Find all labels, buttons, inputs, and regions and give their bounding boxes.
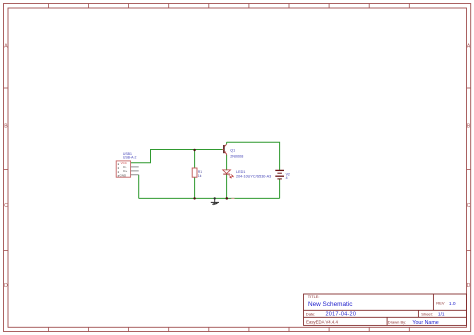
label Drawn By: bbox=[388, 320, 406, 325]
wire resistor bottom bbox=[194, 177, 196, 198]
value 1.0 bbox=[449, 301, 456, 307]
label Date: bbox=[306, 311, 316, 316]
svg-text:2017-04-20: 2017-04-20 bbox=[326, 311, 357, 317]
wire emitter to LED bbox=[226, 155, 228, 170]
svg-text:GND: GND bbox=[120, 173, 128, 177]
LED1 emission arrows bbox=[229, 174, 234, 178]
svg-text:Q1: Q1 bbox=[230, 148, 235, 152]
label REV bbox=[436, 301, 445, 306]
junction node LED bottom bbox=[226, 197, 229, 200]
svg-text:REV: REV bbox=[436, 301, 445, 306]
svg-text:1.0: 1.0 bbox=[449, 301, 456, 307]
pin name D+ bbox=[123, 169, 127, 173]
svg-text:204-10UYC/S530-A3: 204-10UYC/S530-A3 bbox=[236, 175, 271, 179]
wire top rail: collector corner to battery + bbox=[227, 142, 280, 170]
label 204-10UYC/S530-A3 bbox=[236, 175, 271, 179]
connector USB1 body bbox=[116, 161, 130, 177]
transistor Q1 base bar bbox=[223, 145, 225, 153]
svg-text:USB-A-2: USB-A-2 bbox=[123, 156, 137, 160]
LED1 cathode bar bbox=[223, 173, 230, 175]
label 4 bbox=[286, 176, 288, 180]
wire VCC: USB pin1 to bend to resistor/base rail bbox=[131, 150, 222, 163]
transistor Q1 emitter bbox=[224, 151, 226, 155]
svg-text:VCC: VCC bbox=[121, 161, 128, 165]
label USB1 bbox=[123, 152, 132, 156]
svg-text:New Schematic: New Schematic bbox=[308, 301, 353, 308]
svg-text:2N0008: 2N0008 bbox=[230, 154, 243, 158]
svg-text:R1: R1 bbox=[198, 170, 202, 174]
svg-text:EasyEDA V4.4.4: EasyEDA V4.4.4 bbox=[306, 320, 338, 325]
wire collector up bbox=[226, 142, 228, 144]
title block label TITLE: bbox=[308, 294, 320, 299]
ground symbol bbox=[211, 198, 219, 205]
pin name VCC bbox=[121, 161, 128, 165]
wire USB GND down bbox=[138, 175, 140, 199]
wire bottom rail bbox=[139, 197, 280, 199]
svg-text:D: D bbox=[4, 283, 8, 289]
value 2017-04-20 bbox=[326, 311, 357, 317]
svg-text:LED1: LED1 bbox=[236, 170, 245, 174]
label 2N0008 bbox=[230, 154, 243, 158]
svg-text:D+: D+ bbox=[123, 169, 127, 173]
wire resistor top bbox=[194, 150, 196, 169]
junction node resistor top bbox=[193, 149, 195, 151]
pin name GND bbox=[120, 173, 128, 177]
label V2 bbox=[286, 172, 290, 176]
svg-text:4: 4 bbox=[286, 176, 288, 180]
frame zone ticks bottom bbox=[48, 327, 409, 331]
frame row letters left A B C D bbox=[4, 43, 8, 289]
svg-text:Date:: Date: bbox=[306, 311, 316, 316]
junction node ground tap bbox=[214, 197, 216, 199]
pin GND stub bbox=[131, 174, 139, 176]
svg-text:1/1: 1/1 bbox=[438, 312, 445, 318]
value 1/1 bbox=[438, 312, 445, 318]
LED1 triangle bbox=[223, 170, 231, 174]
svg-text:Drawn By:: Drawn By: bbox=[388, 320, 406, 325]
svg-text:C: C bbox=[467, 203, 471, 209]
frame row letters right A B C D bbox=[467, 43, 471, 289]
wire highlight segment bbox=[231, 197, 234, 199]
battery V2 plates bbox=[275, 170, 284, 179]
pin numbers column bbox=[118, 163, 119, 176]
svg-text:Sheet:: Sheet: bbox=[421, 312, 433, 317]
pin name D- bbox=[123, 165, 126, 169]
value Your Name bbox=[412, 320, 438, 326]
svg-text:1k: 1k bbox=[198, 174, 202, 178]
frame zone ticks right bbox=[467, 88, 471, 250]
transistor Q1 emitter arrow bbox=[224, 151, 226, 153]
label LED1 bbox=[236, 170, 245, 174]
label USB-A-2 bbox=[123, 156, 137, 160]
wire battery - down bbox=[279, 179, 281, 199]
resistor R1 body bbox=[192, 168, 197, 177]
pin D+ stub bbox=[131, 170, 139, 172]
svg-text:D-: D- bbox=[123, 165, 126, 169]
pin D- stub bbox=[131, 166, 139, 168]
wire LED cathode down bbox=[226, 174, 228, 198]
frame zone ticks top bbox=[48, 4, 409, 9]
label EasyEDA V4.4.4 bbox=[306, 320, 338, 325]
label Q1 bbox=[230, 148, 235, 152]
svg-text:Your Name: Your Name bbox=[412, 320, 438, 326]
label R1 bbox=[198, 170, 202, 174]
transistor Q1 collector bbox=[224, 144, 226, 147]
label 1k bbox=[198, 174, 202, 178]
frame zone ticks left bbox=[4, 88, 9, 250]
label Sheet: bbox=[421, 312, 433, 317]
transistor Q1 base pin bbox=[222, 149, 224, 151]
svg-text:TITLE:: TITLE: bbox=[308, 294, 320, 299]
title block border bbox=[304, 294, 467, 325]
svg-text:C: C bbox=[4, 203, 8, 209]
svg-text:D: D bbox=[467, 283, 471, 289]
junction node resistor bottom bbox=[193, 197, 195, 199]
